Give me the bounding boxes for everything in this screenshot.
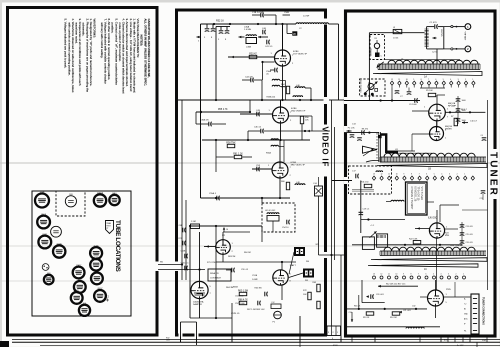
extra bottom stubs right — [351, 337, 353, 343]
wire V1 grid — [228, 56, 275, 58]
wires bottom strip — [12, 339, 500, 341]
svg-text:C38A 470: C38A 470 — [200, 119, 210, 122]
svg-text:VIDEO IF: VIDEO IF — [320, 127, 329, 168]
svg-text:C1B 1.0 MF: C1B 1.0 MF — [252, 12, 264, 14]
svg-text:R66 4.7K: R66 4.7K — [238, 299, 248, 301]
wire y131 to VIDEO IF arrow — [305, 130, 330, 132]
svg-text:DAMPER: DAMPER — [193, 303, 202, 306]
left border down arrow — [351, 312, 353, 322]
wire y219.5 right — [361, 219, 405, 221]
wire y62 under V1 — [263, 61, 275, 63]
svg-text:R65 390: R65 390 — [255, 288, 262, 290]
svg-text:L49 4.5 MC: L49 4.5 MC — [265, 210, 276, 212]
tube V3 6CB6 3rd video IF — [272, 162, 288, 178]
capacitor C1B top — [260, 13, 262, 18]
dashed vertical — [376, 133, 378, 160]
tuner panel frame — [346, 11, 496, 336]
svg-text:8: 8 — [411, 174, 412, 176]
svg-text:10: 10 — [396, 274, 398, 276]
svg-text:C21: C21 — [480, 198, 483, 200]
svg-text:B+: B+ — [464, 299, 466, 301]
UHF resistor R11 — [364, 184, 372, 187]
tube V2 6CB6 2nd video IF — [273, 107, 289, 123]
resistor R22 — [413, 241, 421, 244]
svg-text:7.2: 7.2 — [464, 304, 466, 306]
lower boxes left — [362, 237, 374, 250]
svg-text:FIL: FIL — [464, 331, 466, 333]
plug P1 — [274, 311, 282, 319]
wire RF to right edge — [445, 111, 485, 113]
TUNER title — [493, 149, 499, 199]
scan crease lines — [0, 162, 500, 164]
svg-text:6J6: 6J6 — [83, 303, 86, 305]
svg-text:6: 6 — [435, 79, 436, 81]
svg-text:C50B: C50B — [284, 12, 290, 14]
svg-text:1: 1 — [472, 79, 473, 81]
caps left column upper — [182, 228, 184, 233]
svg-text:R58 TNK: R58 TNK — [226, 142, 236, 144]
wire mixer leads — [436, 121, 438, 127]
svg-text:C25 .005: C25 .005 — [466, 234, 473, 236]
contact row 1 — [390, 81, 393, 85]
wire y226 — [190, 225, 262, 227]
svg-text:11: 11 — [388, 274, 390, 276]
wire V1 plate up — [282, 24, 284, 50]
coil L46 — [295, 87, 305, 88]
svg-text:IF: IF — [464, 324, 466, 326]
tube locations box — [32, 191, 131, 316]
wire osc down to bottom tube — [436, 238, 438, 290]
tube V5 12AX4 damper — [191, 281, 208, 298]
svg-text:3: 3 — [449, 174, 450, 176]
arrow on x200 wire — [197, 36, 201, 38]
balun circle — [374, 43, 379, 48]
wire x360.8 vertical — [360, 181, 362, 234]
svg-text:R22 3.3K: R22 3.3K — [409, 239, 418, 241]
svg-text:R63 1M: R63 1M — [228, 256, 236, 258]
tube V9 6CB6 — [90, 247, 102, 259]
wire RF plate — [436, 95, 438, 104]
tube V2 6BQ7A — [94, 290, 106, 302]
bottom left corner blob — [0, 341, 9, 347]
wire turret left arrow — [377, 62, 384, 68]
mid coil L14 — [391, 200, 404, 201]
svg-text:7: 7 — [428, 79, 429, 81]
capacitor C9 — [414, 98, 416, 103]
tube V6 12AT7 — [73, 267, 85, 279]
turret coil assembly 1A loops — [388, 60, 478, 64]
svg-text:11: 11 — [388, 174, 390, 176]
wire y140 bus — [202, 139, 310, 141]
svg-text:1000: 1000 — [462, 110, 466, 112]
component L50 box — [315, 186, 323, 196]
tube V7 6CB6 — [90, 259, 102, 271]
svg-text:C57A: C57A — [252, 274, 258, 277]
svg-text:2: 2 — [465, 79, 466, 81]
coil L51 mid — [293, 96, 303, 97]
transmission line verticals — [378, 132, 380, 162]
tube V4 12AT7 agc — [216, 240, 231, 255]
svg-text:7: 7 — [418, 274, 419, 276]
svg-text:2: 2 — [456, 274, 457, 276]
tube V17 17D4 — [35, 194, 49, 208]
svg-text:C41 3.9: C41 3.9 — [265, 46, 273, 48]
svg-text:TUBE LOCATIONS: TUBE LOCATIONS — [114, 220, 121, 273]
tube V5 6AQ5 — [91, 273, 103, 285]
svg-text:6X8: 6X8 — [47, 273, 50, 275]
thick L trace — [381, 135, 399, 152]
balun dark component — [375, 53, 380, 58]
capacitor C38a — [208, 122, 210, 127]
left panel frame — [8, 8, 158, 336]
wire y262 V6 — [240, 261, 296, 263]
wire V4 grid — [204, 246, 216, 248]
svg-text:12BQ6: 12BQ6 — [97, 193, 103, 195]
trap capacitor C54 — [286, 220, 288, 225]
tuner top wire — [369, 32, 424, 34]
arrow C10 — [462, 122, 468, 124]
resistor R62 box — [191, 224, 200, 229]
capacitor C43 pair — [220, 27, 222, 31]
terminal strip — [471, 294, 479, 334]
svg-text:4: 4 — [441, 274, 442, 276]
small cluster right border lower — [481, 190, 486, 192]
svg-text:3: 3 — [448, 274, 449, 276]
svg-text:R11 150: R11 150 — [361, 182, 369, 184]
resistor R55 row — [196, 111, 250, 113]
fine tuning dark dots — [364, 92, 367, 95]
trap dashed box — [262, 203, 295, 232]
wire left x190 — [189, 226, 191, 318]
svg-text:CHASSIS 1 TS-53BY: CHASSIS 1 TS-53BY — [410, 187, 413, 210]
tube V12 test socket — [51, 226, 62, 237]
wire V6 to meter boxes — [289, 273, 303, 278]
notes text block (rotated) — [64, 19, 151, 94]
tube V mixer — [430, 127, 444, 141]
svg-text:W: W — [293, 32, 296, 36]
wire right column — [457, 96, 459, 124]
wire V4 cathode — [222, 254, 224, 262]
diagonal arrow into triangle — [363, 149, 374, 157]
bottom cluster wires — [361, 280, 363, 303]
resistor R61 — [234, 155, 242, 158]
svg-text:3: 3 — [458, 79, 459, 81]
svg-text:4: 4 — [450, 79, 451, 81]
capacitor C44 — [250, 78, 252, 83]
svg-text:R64 1M: R64 1M — [244, 252, 251, 254]
svg-text:13: 13 — [373, 174, 375, 176]
resistor R69 right column — [317, 284, 320, 292]
resistor R66 — [239, 301, 247, 304]
svg-text:R65A 270: R65A 270 — [210, 272, 220, 275]
tube V13 6AU8 — [37, 216, 50, 229]
svg-text:10: 10 — [396, 174, 398, 176]
svg-text:6CD6: 6CD6 — [57, 244, 62, 246]
svg-text:C1 470: C1 470 — [430, 22, 438, 24]
tube V RF amp — [429, 104, 446, 121]
bottom bus y327 — [347, 326, 440, 328]
svg-text:L45A: L45A — [244, 26, 250, 29]
svg-text:6W6: 6W6 — [75, 290, 79, 292]
tube V15 12BQ6 — [94, 194, 106, 206]
wire left x182 — [181, 100, 183, 280]
svg-text:P1 1.5K: P1 1.5K — [348, 128, 355, 130]
svg-text:TUNER: TUNER — [488, 152, 499, 197]
resistor R56 — [300, 116, 303, 124]
tube V bottom — [428, 290, 444, 306]
svg-text:9: 9 — [403, 274, 404, 276]
curved wire bottom left — [366, 160, 379, 162]
wire V5 bottom — [199, 299, 201, 318]
small cluster right border upper — [482, 137, 487, 139]
svg-text:6T8: 6T8 — [78, 279, 81, 281]
svg-text:1C: 1C — [424, 269, 427, 271]
junction left — [181, 263, 183, 265]
svg-text:B1: B1 — [464, 309, 466, 311]
tuner left vertical wire — [368, 33, 370, 101]
svg-text:16: 16 — [226, 229, 228, 231]
arrow into tuner y131 — [347, 130, 352, 132]
svg-text:6: 6 — [426, 174, 427, 176]
svg-text:C55A .5: C55A .5 — [209, 192, 217, 195]
transformer arrow — [433, 37, 437, 39]
wire transformer top — [427, 26, 435, 28]
wire into tuner y180 — [332, 180, 352, 182]
resistor L3 on top wire — [393, 29, 402, 33]
contrast control box — [208, 269, 231, 281]
small box 1.5M under tube — [271, 304, 281, 309]
diagonal arrow lower — [370, 231, 377, 237]
capacitor C55A — [216, 196, 218, 201]
svg-text:R16 2K: R16 2K — [354, 306, 361, 308]
svg-text:6: 6 — [426, 274, 427, 276]
svg-text:R53 47: R53 47 — [249, 53, 257, 55]
UHF capacitor C17 — [355, 174, 357, 179]
chassis note box — [406, 182, 428, 215]
svg-text:R13 1K: R13 1K — [363, 317, 370, 319]
socket marker small — [42, 264, 49, 271]
waveform marker W1 — [286, 24, 288, 34]
wire y318 — [190, 317, 232, 319]
svg-text:1B3: 1B3 — [69, 194, 72, 196]
svg-text:will vary with control setting: will vary with control setting. — [100, 23, 104, 59]
dashed box around 1B3 tube — [56, 191, 85, 216]
wire V3 cathode down — [279, 178, 281, 198]
capacitor C13 — [361, 130, 363, 135]
svg-text:R7: R7 — [451, 116, 453, 118]
wire V4 plate — [222, 232, 224, 240]
svg-text:6BQ7: 6BQ7 — [98, 288, 103, 290]
svg-text:UHF ANT: UHF ANT — [369, 48, 372, 57]
tube V16 1B3 — [65, 196, 76, 207]
test point marker 7MA4 — [106, 221, 114, 234]
svg-text:PT: PT — [106, 228, 108, 230]
svg-text:6SN7: 6SN7 — [42, 234, 47, 236]
svg-text:5: 5 — [198, 41, 199, 43]
resistor R65 — [239, 292, 247, 295]
svg-text:1000: 1000 — [462, 100, 466, 102]
capacitor C55C — [184, 266, 186, 271]
big triangle amplifier symbol — [363, 146, 378, 153]
fine tuning dashed box — [360, 79, 385, 96]
turret 1D wedge — [368, 264, 478, 267]
IF transformer coils mid — [271, 139, 279, 140]
wire y255 to tuner — [319, 254, 345, 256]
svg-text:6CB6: 6CB6 — [94, 257, 99, 259]
wire y198 bus — [201, 197, 291, 199]
svg-text:ALL OTHERS IN MMF UNLESS OTHER: ALL OTHERS IN MMF UNLESS OTHERWISE SPEC. — [143, 19, 147, 87]
turret 1B hatch — [380, 157, 485, 162]
capacitor C42 pair — [206, 24, 208, 28]
wire top bus — [201, 23, 297, 25]
svg-text:C46 .05: C46 .05 — [254, 127, 262, 129]
wire into tuner y100 — [344, 100, 420, 102]
input coil L1 hatched — [425, 29, 429, 46]
svg-text:2ND VIDEO IF: 2ND VIDEO IF — [291, 111, 306, 113]
tube V11 6SN7 — [38, 236, 51, 249]
UHF dashed box — [349, 166, 392, 194]
contact row 2 — [372, 176, 375, 180]
svg-text:C19 1.5: C19 1.5 — [363, 209, 370, 211]
svg-text:5: 5 — [433, 274, 434, 276]
svg-text:C10 4.7: C10 4.7 — [470, 121, 478, 123]
svg-text:R65 1.5M: R65 1.5M — [238, 290, 248, 292]
terminal circle 2 — [465, 46, 471, 52]
svg-text:1: 1 — [464, 174, 465, 176]
svg-text:6AU8: 6AU8 — [41, 213, 46, 216]
svg-text:6AQ5: 6AQ5 — [94, 270, 99, 273]
wire V2 grid — [240, 113, 273, 115]
wire x331 vertical — [331, 100, 333, 331]
contact row 3 circles — [373, 276, 376, 279]
capacitor C40 — [262, 30, 264, 35]
svg-text:L11: L11 — [395, 149, 398, 151]
turret coil assembly 1C loops — [384, 247, 475, 251]
svg-text:1.0MF: 1.0MF — [252, 279, 258, 281]
svg-text:C55B: C55B — [181, 251, 186, 253]
svg-text:8: 8 — [421, 79, 422, 81]
svg-text:1B: 1B — [428, 168, 431, 171]
wire RF cathode — [436, 121, 438, 128]
bottom resistor R14 — [392, 312, 400, 315]
svg-text:C54 10: C54 10 — [282, 227, 289, 229]
capacitor C1 470 — [434, 24, 436, 29]
wire osc to edge — [462, 209, 488, 211]
wire stub top right — [283, 14, 291, 16]
svg-text:5: 5 — [434, 174, 435, 176]
svg-text:R53A 114: R53A 114 — [267, 96, 277, 99]
wire V5 top — [199, 232, 201, 281]
svg-text:C57B 1000: C57B 1000 — [235, 303, 244, 305]
coil L44 top — [296, 23, 329, 24]
svg-text:11: 11 — [398, 79, 400, 81]
svg-text:6J6 OSC: 6J6 OSC — [428, 218, 438, 220]
svg-text:1.0 MH: 1.0 MH — [244, 29, 251, 31]
tube V3 6W6 — [71, 292, 83, 304]
tube V osc — [429, 223, 444, 238]
svg-text:C9 1000: C9 1000 — [409, 104, 417, 106]
tube V1 6CB6 1st video IF — [275, 50, 291, 66]
svg-text:MIXER: MIXER — [445, 129, 452, 131]
wire osc right — [445, 228, 458, 230]
svg-text:7MA4: 7MA4 — [106, 222, 111, 225]
svg-text:12: 12 — [391, 79, 393, 81]
svg-text:2: 2 — [457, 174, 458, 176]
IF meter box 1 — [294, 247, 305, 256]
wire bottom verticals — [215, 226, 217, 318]
capacitor C45 — [256, 112, 258, 117]
svg-text:6CB6: 6CB6 — [94, 245, 99, 247]
svg-text:R12 10K C14 R17 C15: R12 10K C14 R17 C15 — [386, 284, 405, 286]
bottom strip wire stubs — [180, 337, 182, 343]
vertical resistor right of tube — [308, 292, 311, 300]
resistor R70 — [317, 301, 320, 309]
svg-text:C4: C4 — [481, 135, 483, 137]
turret 1A hatch bar — [378, 64, 480, 70]
svg-text:1.0 MF: 1.0 MF — [303, 16, 310, 18]
svg-text:VHF ANT: VHF ANT — [463, 32, 466, 42]
resistor R58 — [227, 144, 235, 147]
fine tuning cap — [368, 84, 374, 90]
wire right x318 — [318, 196, 320, 255]
svg-text:1A: 1A — [424, 76, 427, 79]
svg-text:R5 10K: R5 10K — [426, 90, 433, 92]
svg-text:L52: L52 — [272, 302, 275, 304]
svg-text:4: 4 — [441, 174, 442, 176]
wire V6 leads — [281, 262, 283, 271]
svg-text:17D4: 17D4 — [40, 192, 45, 194]
wire y100 bus — [178, 99, 324, 101]
dark block on line — [378, 135, 382, 138]
trap coil L49 — [267, 213, 279, 214]
bottom arrow row — [378, 285, 418, 287]
wire x302 down — [301, 124, 303, 140]
wire x216 vertical — [215, 27, 217, 101]
capacitor C21 arrow — [399, 311, 402, 314]
svg-text:R67 1.5M R68 1.4K: R67 1.5M R68 1.4K — [247, 309, 265, 311]
capacitor C19 on vertical — [359, 211, 364, 213]
components under contact row 1 — [395, 90, 400, 92]
svg-text:C20 .001: C20 .001 — [376, 294, 384, 296]
capacitor C20 arrow — [366, 295, 369, 298]
wire C1B drop — [275, 15, 277, 24]
svg-text:5. Voltages indicated are pea: 5. Voltages indicated are peak to peak. — [64, 19, 68, 69]
bottom mini scallops — [406, 327, 424, 328]
resistor R53 — [249, 55, 257, 58]
svg-text:1: 1 — [463, 274, 464, 276]
svg-text:W6: W6 — [160, 262, 163, 264]
open dot bottom — [451, 48, 453, 50]
svg-text:L45B: L45B — [246, 47, 252, 49]
wires crossing to left panel — [158, 264, 182, 266]
wire left x186 — [185, 200, 187, 280]
turret 1C wedge — [371, 258, 487, 262]
svg-text:8: 8 — [411, 274, 412, 276]
coil L48 — [295, 184, 305, 185]
wire transformer bottom to coil — [436, 49, 438, 64]
svg-text:PW5: PW5 — [446, 289, 452, 291]
svg-text:FINE TUNING: FINE TUNING — [359, 80, 361, 93]
svg-text:13: 13 — [373, 274, 375, 276]
extra cap C59 — [231, 268, 233, 273]
resistor R7 between tubes — [454, 118, 457, 126]
svg-text:3.9K: 3.9K — [281, 86, 286, 88]
svg-text:R55 4.7K: R55 4.7K — [218, 109, 228, 111]
tube V8 6X8 — [44, 275, 54, 285]
wire V2 plate — [280, 100, 282, 107]
tube V4 6T8 — [74, 281, 86, 293]
svg-text:9: 9 — [403, 174, 404, 176]
